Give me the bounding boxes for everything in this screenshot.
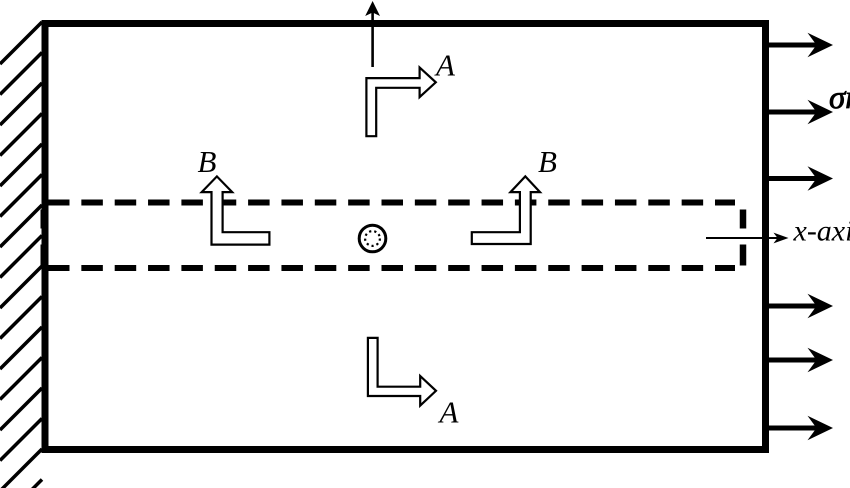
hole outer circle <box>359 225 386 252</box>
hole inner dotted circle <box>365 231 380 246</box>
stress arrow 5 <box>768 348 833 373</box>
stress arrow 1 <box>768 33 833 58</box>
section strip top dashed line <box>48 200 735 206</box>
section arrow B left <box>202 176 270 244</box>
section strip right dashed end <box>740 210 747 266</box>
svg-text:σn: σn <box>829 80 850 116</box>
plate outline <box>45 24 766 450</box>
svg-text:B: B <box>198 144 217 179</box>
svg-text:B: B <box>538 144 557 179</box>
section arrow B right <box>472 176 540 244</box>
stress arrow 4 <box>768 294 833 319</box>
stress arrow 3 <box>768 166 833 191</box>
stress arrow 2 <box>768 100 833 125</box>
section arrow A bottom <box>368 338 436 406</box>
fixed wall hatching <box>0 22 42 488</box>
y-axis line <box>371 11 374 67</box>
svg-text:A: A <box>434 48 456 83</box>
svg-text:x-axis: x-axis <box>793 215 850 248</box>
section strip left dashed end <box>41 210 48 266</box>
svg-text:A: A <box>438 395 460 430</box>
stress arrow 6 <box>768 416 833 441</box>
section arrow A top <box>366 68 435 137</box>
y-axis arrowhead <box>365 1 380 16</box>
x-axis arrowhead <box>774 233 789 244</box>
section strip bottom dashed line <box>48 265 735 271</box>
x-axis line <box>706 237 779 239</box>
